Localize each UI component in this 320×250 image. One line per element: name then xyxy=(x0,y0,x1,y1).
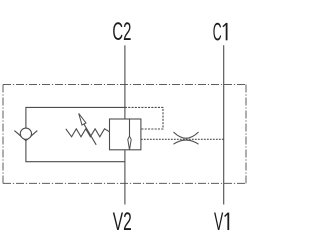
svg-text:C2: C2 xyxy=(112,18,131,46)
spring adjustment arrow head xyxy=(79,113,86,125)
relief valve body U1 xyxy=(110,119,141,150)
valve flow path line xyxy=(129,119,131,137)
svg-text:C: C xyxy=(213,18,222,46)
svg-text:V2: V2 xyxy=(113,208,132,236)
spring adjustment arrow shaft xyxy=(84,124,96,145)
port line C2 xyxy=(124,45,126,119)
svg-text:V: V xyxy=(214,208,223,236)
spring W1 xyxy=(66,129,110,137)
valve flow arrow xyxy=(128,136,131,150)
check valve CV1 seat xyxy=(14,131,37,141)
port line V2 xyxy=(124,150,126,205)
orifice FC1 lower arc xyxy=(174,140,199,144)
port line C1 to V1 xyxy=(223,45,225,204)
enclosure dash-dot border left edge xyxy=(2,85,4,184)
pilot line to C1 through orifice (dashed) xyxy=(141,138,224,140)
enclosure dash-dot border bottom edge xyxy=(3,182,246,184)
enclosure dash-dot border right edge xyxy=(245,85,247,184)
wire check-valve branch top xyxy=(26,107,125,128)
pilot line loop from C2 (dashed) xyxy=(125,107,163,129)
orifice FC1 upper arc xyxy=(174,132,199,138)
wire check-valve branch bottom xyxy=(26,140,125,161)
check valve CV1 ball xyxy=(20,128,31,139)
enclosure dash-dot border top edge xyxy=(3,84,246,86)
